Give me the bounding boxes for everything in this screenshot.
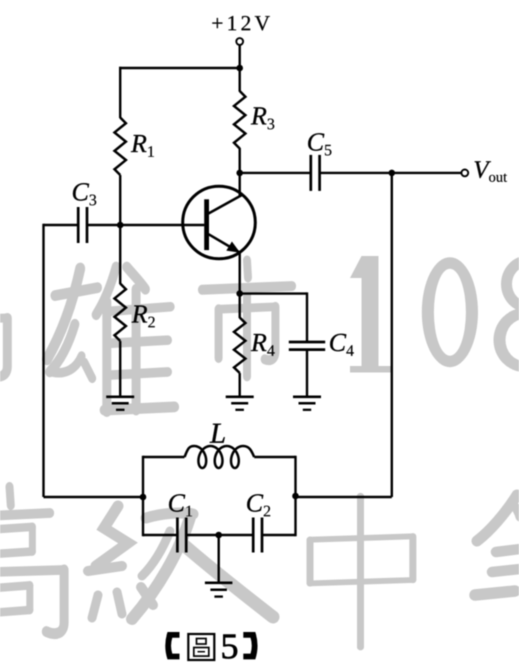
wire top rail left (119, 67, 240, 69)
wire tank bottom left (143, 534, 177, 536)
node output junction (389, 170, 396, 177)
resistor R1 (115, 118, 126, 176)
label R1 (131, 135, 147, 152)
caption right bracket (243, 632, 257, 659)
node emitter junction (236, 290, 243, 297)
label R4 (251, 334, 267, 351)
wire C4 bottom lead (306, 350, 308, 397)
node tank left junction (140, 494, 147, 501)
caption glyph 圖 (188, 634, 214, 660)
node tank right junction (292, 493, 299, 500)
label C4 (330, 334, 346, 351)
wire tank left vertical (142, 456, 144, 536)
wire R2 bottom lead (119, 341, 121, 397)
transistor Q1 collector stroke (209, 195, 243, 214)
+12V supply label (212, 18, 222, 28)
watermark row 2: partial 高 (0, 487, 64, 636)
transistor Q1 base bar (204, 199, 209, 250)
node base junction (117, 222, 124, 229)
wire output node to terminal (392, 172, 462, 174)
wire tank center ground stem (217, 535, 219, 583)
wire R4 top lead (238, 294, 240, 318)
label C1 (169, 494, 185, 511)
watermark row 2: partial 等 (477, 495, 517, 541)
wire C3 right lead (87, 224, 120, 226)
caption number 5 (223, 635, 238, 659)
wire feedback left vertical (42, 224, 44, 497)
node tank center junction (215, 532, 222, 539)
wire C2 to tank right (262, 534, 296, 536)
watermark row 1: digit 0 (422, 257, 478, 367)
node collector junction (236, 170, 243, 177)
watermark row 2: 中 (310, 496, 413, 647)
+12V terminal (236, 38, 243, 45)
capacitor C4 (289, 341, 325, 344)
wire supply to top node (238, 45, 240, 68)
wire emitter vertical (238, 253, 240, 294)
label C5 (308, 133, 324, 150)
wire tank top left (143, 456, 185, 458)
wire output right vertical (391, 173, 393, 497)
capacitor C5 (309, 155, 312, 191)
watermark row 1: partial 高 (0, 241, 7, 379)
wire feedback to tank left (44, 496, 144, 498)
ground under C4 (293, 395, 321, 398)
transistor Q1 circle (183, 186, 256, 259)
output terminal (461, 170, 468, 177)
wire R1 top lead (119, 67, 121, 118)
wire R1 bottom lead to base node (119, 175, 121, 225)
watermark row 1: digit 8 (partial) (494, 256, 519, 373)
wire C3 left lead (44, 224, 79, 226)
label L (210, 424, 225, 443)
label Vout (475, 161, 491, 178)
watermark row 1: 市 (202, 260, 292, 376)
wire collector node to C5 (240, 172, 310, 174)
ground under tank (205, 581, 233, 584)
capacitor C3 (77, 207, 80, 243)
wire to tank right (296, 496, 392, 498)
wire base (120, 224, 204, 226)
watermark row 1: digit 1 (350, 256, 392, 373)
wire tank top right (254, 456, 295, 458)
wire C5 to output node (320, 172, 392, 174)
watermark row 2: 級 (96, 506, 128, 566)
caption left bracket (165, 632, 179, 659)
wire emitter node to C4 (240, 292, 307, 294)
inductor L (185, 446, 255, 468)
resistor R4 (234, 318, 245, 374)
node top junction (236, 65, 243, 72)
label C2 (247, 494, 263, 511)
watermark row 1: 雄 (47, 267, 175, 412)
wire collector node down to transistor (238, 173, 240, 197)
resistor R3 (234, 91, 245, 149)
label C3 (73, 183, 89, 200)
wire R2 top lead (119, 225, 121, 284)
ground under R4 (226, 395, 254, 398)
capacitor C1 (176, 518, 179, 553)
ground under R2 (106, 395, 134, 398)
wire tank right vertical (294, 456, 296, 536)
wire R4 bottom lead (238, 373, 240, 397)
label R3 (251, 107, 267, 124)
wire C4 top lead (306, 292, 308, 342)
transistor Q1 emitter arrowhead (226, 242, 240, 253)
wire R3 bottom lead (238, 148, 240, 173)
resistor R2 (115, 284, 126, 342)
wire R3 top lead (238, 68, 240, 92)
label R2 (132, 305, 148, 322)
transistor Q1 emitter stroke (209, 234, 239, 252)
wire C1 to center (186, 534, 253, 536)
capacitor C2 (252, 518, 255, 553)
